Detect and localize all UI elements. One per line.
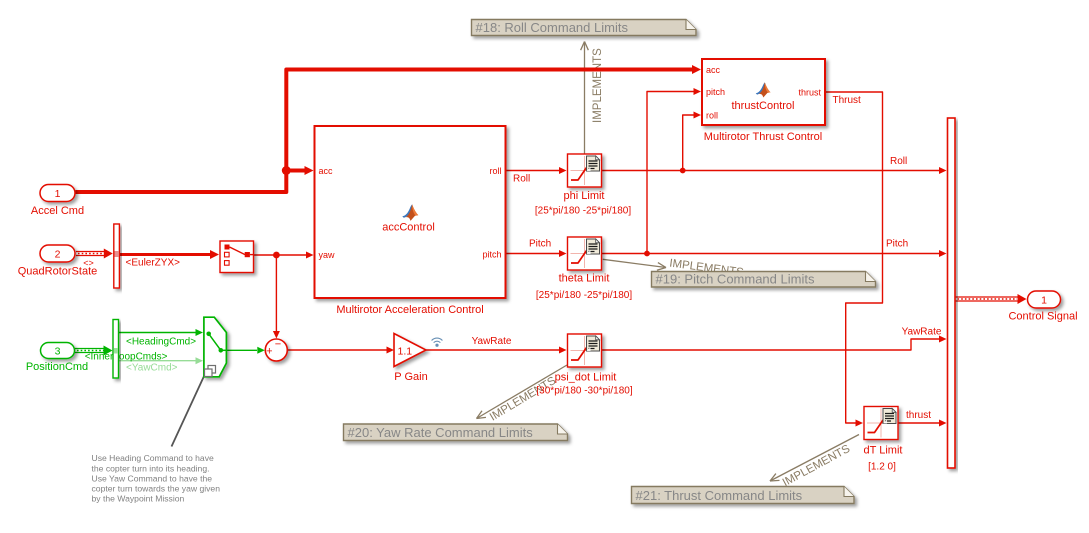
svg-text:<HeadingCmd>: <HeadingCmd> [126,337,196,348]
svg-text:#18: Roll Command Limits: #18: Roll Command Limits [476,20,629,35]
svg-text:Multirotor Acceleration Contro: Multirotor Acceleration Control [336,304,483,316]
svg-text:3: 3 [55,346,61,358]
svg-text:PositionCmd: PositionCmd [26,361,88,373]
svg-text:1.1: 1.1 [398,346,413,358]
svg-text:IMPLEMENTS: IMPLEMENTS [592,48,604,123]
svg-text:accControl: accControl [382,222,435,234]
svg-text:the copter turn into its headi: the copter turn into its heading. [92,463,210,473]
svg-text:Pitch: Pitch [529,239,551,250]
svg-text:Roll: Roll [890,156,907,167]
svg-text:thrustControl: thrustControl [732,100,795,112]
svg-text:QuadRotorState: QuadRotorState [18,266,98,278]
svg-text:Multirotor Thrust Control: Multirotor Thrust Control [704,131,822,143]
svg-text:YawRate: YawRate [472,336,512,347]
svg-text:Control Signal: Control Signal [1008,311,1077,323]
svg-text:YawRate: YawRate [902,326,942,337]
svg-text:<InnerLoopCmds>: <InnerLoopCmds> [85,351,168,362]
svg-text:thrust: thrust [906,410,931,421]
svg-text:[30*pi/180 -30*pi/180]: [30*pi/180 -30*pi/180] [536,385,632,396]
svg-text:P Gain: P Gain [394,371,427,383]
svg-text:phi Limit: phi Limit [564,190,605,202]
svg-text:pitch: pitch [482,249,501,259]
svg-text:[25*pi/180 -25*pi/180]: [25*pi/180 -25*pi/180] [536,290,632,301]
svg-text:<YawCmd>: <YawCmd> [126,362,178,373]
svg-text:1: 1 [1041,295,1047,307]
svg-text:<EulerZYX>: <EulerZYX> [126,257,181,268]
svg-text:acc: acc [319,166,334,176]
svg-text:roll: roll [706,110,718,120]
svg-text:by the Waypoint Mission: by the Waypoint Mission [92,494,185,504]
svg-text:copter turn towards the yaw gi: copter turn towards the yaw given [92,484,221,494]
svg-text:theta Limit: theta Limit [559,272,610,284]
svg-text:pitch: pitch [706,87,725,97]
svg-text:acc: acc [706,65,721,75]
svg-text:[1.2 0]: [1.2 0] [868,462,896,473]
svg-text:yaw: yaw [319,250,336,260]
svg-text:1: 1 [55,188,61,200]
svg-text:roll: roll [489,166,501,176]
svg-text:Roll: Roll [513,173,530,184]
svg-text:thrust: thrust [798,87,821,97]
svg-text:−: − [275,339,281,351]
svg-text:dT Limit: dT Limit [864,445,903,457]
svg-text:#20: Yaw Rate Command Limits: #20: Yaw Rate Command Limits [348,425,534,440]
svg-text:Use Heading Command to have: Use Heading Command to have [92,453,215,463]
svg-text:+: + [266,346,272,358]
svg-text:psi_dot Limit: psi_dot Limit [555,372,617,384]
svg-text:Accel Cmd: Accel Cmd [31,205,84,217]
svg-text:Use Yaw Command to have the: Use Yaw Command to have the [92,473,213,483]
svg-text:2: 2 [55,249,61,261]
svg-text:#19: Pitch Command Limits: #19: Pitch Command Limits [656,272,815,287]
svg-text:#21: Thrust Command Limits: #21: Thrust Command Limits [636,488,803,503]
svg-text:Pitch: Pitch [886,239,908,250]
svg-text:[25*pi/180 -25*pi/180]: [25*pi/180 -25*pi/180] [535,206,631,217]
svg-text:Thrust: Thrust [833,95,862,106]
